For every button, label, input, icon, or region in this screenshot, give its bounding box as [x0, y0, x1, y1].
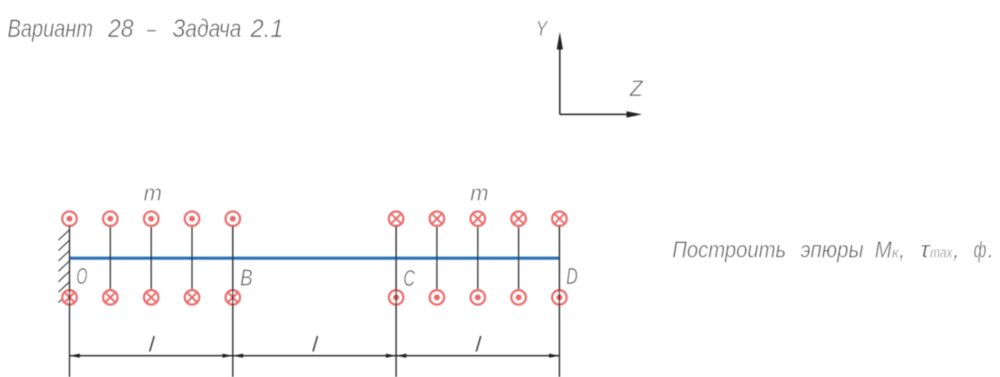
- svg-text:O: O: [76, 263, 87, 289]
- svg-text:m: m: [470, 181, 488, 206]
- svg-text:,: ,: [953, 237, 960, 263]
- vector-out-of-page symbol, top row at B: [226, 212, 240, 226]
- svg-text:Z: Z: [629, 76, 644, 101]
- vector-out-of-page symbol, top row left group 4: [185, 212, 199, 226]
- svg-text:Y: Y: [536, 16, 549, 40]
- vector-into-page symbol, top row at D: [552, 212, 566, 226]
- svg-text:C: C: [403, 265, 415, 291]
- svg-text:2.1: 2.1: [250, 15, 284, 43]
- wire: torque couple line, right group column 3: [477, 226, 479, 290]
- vector-out-of-page symbol, top row left group 3: [144, 212, 158, 226]
- vector-out-of-page symbol, top row left group 2: [103, 212, 117, 226]
- instruction text "Построить эпюры Мк, τmax, ф.": [672, 237, 994, 263]
- vector-out-of-page symbol, bottom row right group 4: [511, 290, 525, 304]
- shaft (beam) O-D: [70, 257, 560, 260]
- svg-text:D: D: [566, 263, 578, 289]
- dimension arrowhead at C pointing left: [396, 354, 406, 358]
- svg-text:.: .: [988, 237, 995, 263]
- vector-out-of-page symbol, bottom row at C: [389, 290, 403, 304]
- Y axis with arrowhead: [557, 32, 563, 115]
- svg-text:max: max: [930, 245, 953, 262]
- vector-into-page symbol, bottom row left group 3: [144, 290, 158, 304]
- svg-text:–: –: [146, 15, 156, 43]
- vector-into-page symbol, top row at C: [389, 212, 403, 226]
- svg-text:m: m: [144, 181, 162, 206]
- svg-text:М: М: [875, 237, 892, 263]
- dimension arrowhead at B pointing right: [223, 354, 233, 358]
- vector-out-of-page symbol, top row at O: [62, 212, 76, 226]
- dimension length label l (segment B-C): [313, 336, 318, 352]
- vector-into-page symbol, bottom row at B: [226, 290, 240, 304]
- vector-out-of-page symbol, bottom row right group 2: [430, 290, 444, 304]
- fixed support wall hatching at O: [59, 230, 70, 303]
- svg-text:,: ,: [899, 237, 906, 263]
- svg-text:28: 28: [107, 15, 134, 43]
- svg-text:эпюры: эпюры: [801, 237, 864, 263]
- svg-text:ф: ф: [974, 237, 987, 263]
- extension line at node O: [69, 226, 71, 377]
- vector-into-page symbol, top row right group 2: [430, 212, 444, 226]
- vector-out-of-page symbol, bottom row at D: [552, 290, 566, 304]
- vector-into-page symbol, top row right group 3: [471, 212, 485, 226]
- dimension arrowhead at B pointing left: [233, 354, 243, 358]
- wire: torque couple line, left group column 3: [150, 226, 152, 290]
- dimension line O-D: [70, 355, 560, 357]
- vector-into-page symbol, bottom row left group 2: [103, 290, 117, 304]
- vector-into-page symbol, top row right group 4: [511, 212, 525, 226]
- dimension arrowhead at O pointing left: [70, 354, 80, 358]
- wire: torque couple line, left group column 2: [109, 226, 111, 290]
- vector-into-page symbol, bottom row at O: [62, 290, 76, 304]
- Z axis with arrowhead: [560, 111, 642, 117]
- dimension length label l (segment C-D): [476, 336, 481, 352]
- vector-into-page symbol, bottom row left group 4: [185, 290, 199, 304]
- title text "Вариант 28 – Задача 2.1": [8, 15, 284, 43]
- dimension length label l (segment O-B): [150, 336, 155, 352]
- svg-text:Построить: Построить: [672, 237, 786, 263]
- svg-text:B: B: [240, 265, 253, 291]
- extension line at node B: [232, 226, 234, 377]
- vector-out-of-page symbol, bottom row right group 3: [471, 290, 485, 304]
- dimension arrowhead at D pointing right: [549, 354, 559, 358]
- wire: torque couple line, right group column 2: [436, 226, 438, 290]
- svg-text:Задача: Задача: [173, 15, 242, 43]
- svg-text:Вариант: Вариант: [8, 15, 94, 43]
- wire: torque couple line, left group column 4: [191, 226, 193, 290]
- extension line at node C: [395, 226, 397, 377]
- wire: torque couple line, right group column 4: [518, 226, 520, 290]
- extension line at node D: [558, 226, 560, 377]
- dimension arrowhead at C pointing right: [386, 354, 396, 358]
